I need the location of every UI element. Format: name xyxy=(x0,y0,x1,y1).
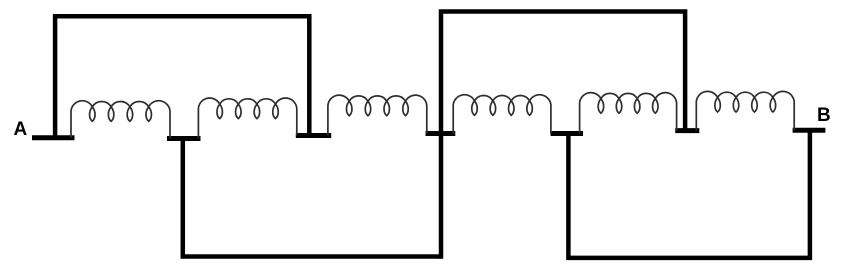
junction bar L3-L4 xyxy=(426,131,456,136)
wire: bottom jumper loop 1 left leg and bottom run (L1-L2 junction down and right) xyxy=(183,139,441,257)
junction bar L4-L5 xyxy=(551,131,584,136)
inductor L6 xyxy=(696,91,794,130)
inductor L1 xyxy=(71,101,170,139)
inductor L4 xyxy=(453,95,551,134)
junction bar L1-L2 xyxy=(167,136,201,141)
svg-text:A: A xyxy=(14,119,28,140)
inductor L2 xyxy=(198,98,296,138)
node A terminal bar xyxy=(32,135,75,140)
junction bar L5-L6 xyxy=(675,128,699,133)
junction bar L2-L3 xyxy=(296,133,331,138)
wire: top jumper loop 1 (node A terminal up, over, down to L2-L3 junction) xyxy=(55,16,309,139)
wire: bottom jumper loop 2 (L4-L5 junction down, right, up to node B terminal) xyxy=(568,132,810,258)
inductor L5 xyxy=(580,93,677,134)
wire: top jumper loop 2 (L3-L4 junction vertical, over, down to L5-L6 junction) xyxy=(441,12,685,259)
svg-text:B: B xyxy=(817,105,831,126)
inductor L3 xyxy=(328,95,427,135)
node B terminal bar xyxy=(793,128,826,133)
